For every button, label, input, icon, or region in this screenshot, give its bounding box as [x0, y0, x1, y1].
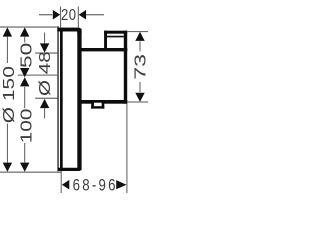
dimension 100: bottom arrow	[20, 163, 29, 172]
svg-text:73: 73	[132, 54, 149, 80]
dimension oe150: line segments	[7, 37, 8, 63]
bump left edge	[91, 102, 94, 109]
escutcheon plate top edge	[57, 28, 81, 34]
dimension oe150: bottom arrow	[3, 163, 12, 172]
dimension 68-96: left arrow (points left)	[62, 180, 69, 190]
dimension 100: line segments	[24, 87, 25, 109]
dimension oe48: upper arrow (points down to line)	[40, 43, 49, 52]
dimension 73: line segments	[140, 41, 141, 51]
bump interior white cut	[94, 103, 102, 107]
dimension 20: left tail	[39, 14, 52, 15]
handle cap left edge	[104, 31, 107, 48]
extension line 68-96 right	[126, 104, 127, 193]
dimension oe150: top arrow	[3, 27, 12, 36]
svg-text:100: 100	[17, 109, 35, 144]
dimension oe48: upper stem	[44, 32, 45, 43]
dimension oe48: lower stem	[44, 108, 45, 118]
dimension 50: top arrow	[20, 27, 29, 36]
dimension 20: right arrow (points left)	[79, 10, 86, 20]
dimension 100: top arrow (hourglass bottom)	[20, 77, 29, 86]
dimension 73: bottom arrow (points down)	[135, 93, 144, 102]
extension line 73 top	[127, 30, 148, 33]
handle front (right) band	[124, 31, 127, 104]
dimension 50: line segments	[24, 37, 25, 43]
escutcheon plate bottom edge	[58, 168, 82, 171]
handle top edge	[81, 48, 128, 51]
extension line oe48 top	[35, 53, 57, 54]
svg-text:50: 50	[17, 43, 35, 68]
extension line 20 right	[78, 7, 79, 28]
dimension 73: top arrow (points up)	[135, 32, 144, 41]
extension line oe48 bottom	[35, 98, 57, 99]
extension line 20 left	[60, 7, 61, 28]
extension line 73 bottom	[127, 102, 148, 103]
extension line 68-96 left	[61, 171, 62, 193]
bump bottom edge	[91, 106, 104, 108]
svg-text:Ø 48: Ø 48	[35, 51, 53, 96]
escutcheon plate inner thick left line	[60, 28, 63, 171]
handle cap inner line	[107, 36, 124, 38]
escutcheon plate right band (front face)	[77, 29, 81, 171]
svg-text:20: 20	[61, 7, 77, 24]
extension line bottom (y171.8)	[0, 172, 62, 173]
dimension 20: right tail	[86, 14, 104, 15]
dimension 50: bottom arrow (hourglass top)	[20, 68, 29, 77]
dimension 20: left arrow (points right)	[53, 10, 60, 20]
svg-text:Ø 150: Ø 150	[0, 66, 17, 123]
svg-text:68-96: 68-96	[73, 176, 118, 195]
handle cap top edge	[104, 31, 127, 34]
extension line at 50/100 junction	[18, 75, 59, 76]
handle bottom edge	[81, 100, 128, 104]
escutcheon plate outer thin left line	[57, 26, 59, 171]
dimension oe48: lower arrow (points up to line)	[40, 99, 49, 108]
dimension 68-96: right arrow (points right)	[116, 180, 126, 189]
bump right edge	[102, 102, 105, 109]
extension line top (y26)	[0, 27, 58, 28]
